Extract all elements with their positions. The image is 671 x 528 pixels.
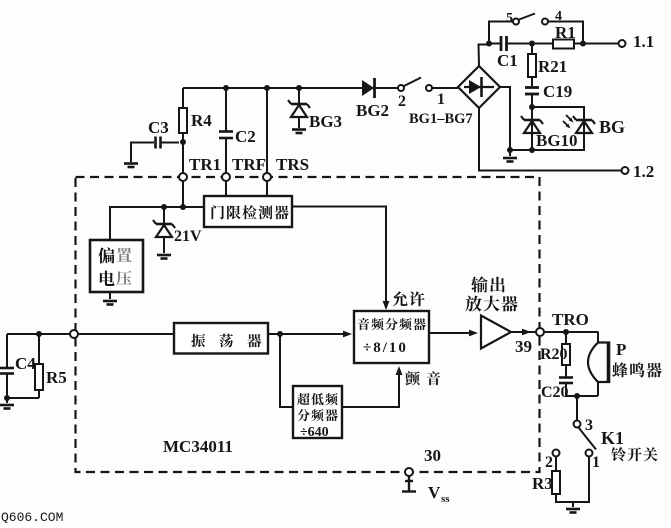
ground bias box [109, 292, 111, 299]
pin 39 output [536, 328, 544, 336]
block threshold detector [204, 196, 292, 227]
svg-text:C19: C19 [543, 82, 572, 101]
svg-text:÷8/10: ÷8/10 [363, 340, 408, 356]
capacitor C19 [525, 86, 539, 89]
wire amp out to pin 39 [511, 331, 536, 333]
svg-text:TRO: TRO [552, 310, 589, 329]
piezo buzzer P [597, 332, 599, 343]
node TRO [563, 329, 569, 335]
node TR1 wire [180, 204, 186, 210]
svg-text:R3: R3 [532, 474, 553, 493]
svg-text:R21: R21 [538, 57, 567, 76]
resistor R4 [182, 88, 184, 141]
svg-text:3: 3 [585, 417, 593, 434]
node dc minus [507, 147, 513, 153]
svg-text:TR1: TR1 [189, 155, 221, 174]
wire detector to enable line [292, 207, 386, 309]
block oscillator [174, 323, 268, 354]
zener diode BG10 [531, 107, 533, 119]
node osc out [277, 331, 283, 337]
svg-text:C1: C1 [497, 51, 518, 70]
svg-text:R20: R20 [540, 346, 568, 363]
ground bridge minus [509, 150, 511, 156]
diode BG2 [362, 80, 374, 96]
block ultra-low-freq divider [293, 386, 342, 438]
svg-text:2: 2 [398, 93, 406, 110]
terminal L2 [622, 167, 629, 174]
wire contact 4 to rail [548, 22, 583, 44]
svg-text:TRS: TRS [276, 155, 309, 174]
wire left input [7, 333, 70, 335]
ground ring switch [572, 502, 574, 507]
node zener top [161, 204, 167, 210]
switch contact 4 [542, 19, 548, 25]
svg-text:C3: C3 [148, 118, 169, 137]
AC top rail with C1 [489, 43, 501, 45]
svg-text:÷640: ÷640 [300, 425, 329, 440]
terminal L1 [619, 40, 626, 47]
node BG3 bus [296, 85, 302, 91]
node buzzer bottom [574, 393, 580, 399]
wire top bus [183, 87, 398, 89]
wire pin39 to TRO [544, 331, 599, 333]
resistor R1 [553, 40, 574, 49]
block audio frequency divider [354, 311, 429, 363]
block bias voltage [90, 240, 143, 292]
svg-text:Q606.COM: Q606.COM [1, 510, 63, 523]
wire to subaudio divider [280, 334, 293, 407]
svg-text:P: P [616, 340, 626, 359]
switch contact 5 [513, 19, 519, 25]
ground C4 R5 [4, 395, 10, 401]
ground for C3 [124, 164, 138, 168]
svg-text:R1: R1 [555, 23, 576, 42]
zener diode BG [576, 119, 592, 122]
svg-text:2: 2 [545, 454, 553, 471]
pin TR1 [179, 173, 187, 181]
switch K1 contact 2 [553, 450, 560, 457]
wire bridge bottom to L2 [479, 108, 621, 171]
wire R4 to TR1 pin [182, 141, 184, 173]
svg-text:1: 1 [437, 91, 445, 108]
resistor R5 [38, 334, 40, 365]
pin TRF [222, 173, 230, 181]
svg-text:V: V [428, 483, 441, 502]
svg-text:K1: K1 [601, 428, 624, 448]
wire to ring switch [576, 396, 578, 421]
svg-text:1.1: 1.1 [633, 32, 654, 51]
wire bridge right down [500, 87, 532, 150]
svg-text:BG: BG [599, 117, 625, 137]
bridge rectifier BG1-BG7 [458, 66, 500, 108]
wire bias rail to detector [110, 207, 204, 240]
wire bridge top to AC rail [479, 45, 490, 67]
op-amp output amplifier [481, 316, 511, 349]
svg-text:1.2: 1.2 [633, 162, 654, 181]
wire pin to oscillator [78, 333, 174, 335]
capacitor C2 [225, 88, 227, 131]
svg-text:30: 30 [424, 446, 441, 465]
IC MC34011 dashed boundary box [76, 177, 540, 472]
svg-text:R5: R5 [46, 368, 67, 387]
node junction R4/C3 [180, 139, 186, 145]
wire TRS stub [266, 88, 268, 173]
node R21 top [529, 41, 535, 47]
node box bottom [529, 147, 535, 153]
wire R1 to terminal [575, 43, 618, 45]
capacitor C20 [559, 376, 573, 379]
svg-text:C4: C4 [15, 354, 36, 373]
svg-text:BG3: BG3 [309, 112, 342, 131]
svg-text:39: 39 [515, 337, 532, 356]
ground Vss [402, 476, 416, 492]
svg-text:5: 5 [506, 11, 513, 26]
svg-text:21V: 21V [174, 228, 202, 245]
svg-text:C2: C2 [235, 127, 256, 146]
svg-text:ss: ss [441, 493, 450, 505]
zener diode 21V [163, 207, 165, 223]
svg-text:C20: C20 [541, 384, 569, 401]
svg-text:BG2: BG2 [356, 101, 389, 120]
svg-text:BG10: BG10 [536, 131, 578, 150]
hook switch contact 1 [426, 85, 432, 91]
zener diode BG3 [298, 88, 300, 103]
wire TR1 pin down [182, 181, 184, 207]
node C2 bus [223, 85, 229, 91]
resistor R20 [565, 332, 567, 345]
hook switch contact 2 [398, 85, 404, 91]
switch K1 contact 1 [586, 450, 593, 457]
wire oscillator out [268, 333, 348, 335]
wire divider to amp [429, 332, 474, 334]
box around BG10 and BG [532, 107, 584, 150]
resistor R3 [555, 457, 557, 473]
node TRS bus [264, 85, 270, 91]
node C19 to box [529, 104, 535, 110]
node rail/switch branch [486, 41, 492, 47]
wire TRF pin to detector [225, 181, 227, 196]
pin TRS [263, 173, 271, 181]
svg-text:TRF: TRF [232, 155, 266, 174]
pin oscillator input [70, 330, 78, 338]
svg-text:1: 1 [592, 454, 600, 471]
capacitor C4 [6, 334, 8, 367]
wire divider to warble input [342, 370, 399, 407]
capacitor C3 [154, 137, 157, 149]
wire bus to bridge [432, 87, 458, 89]
svg-text:MC34011: MC34011 [163, 437, 233, 456]
wire TRS pin to detector [266, 181, 268, 196]
bypass switch branch 5-4 [489, 22, 513, 44]
switch K1 contact 3 [574, 421, 581, 428]
node R5 top [36, 331, 42, 337]
node R1 right [580, 41, 586, 47]
svg-text:R4: R4 [191, 111, 212, 130]
capacitor C1 [500, 36, 503, 51]
pin 30 Vss [405, 468, 413, 476]
svg-text:BG1–BG7: BG1–BG7 [409, 111, 473, 127]
resistor R21 [531, 44, 533, 56]
